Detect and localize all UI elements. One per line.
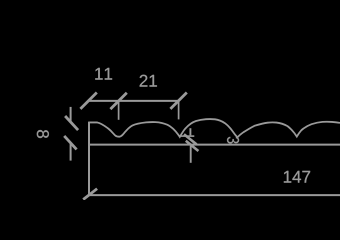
label 147 (284, 171, 310, 183)
dim 3 upper segment (189, 128, 191, 135)
bottom dimension line for 147 (88, 194, 340, 196)
oblique tick between 11 and 21 (110, 93, 126, 109)
extension dropper at first cusp (118, 101, 120, 120)
dim 3 lower oblique tick (186, 141, 199, 151)
scalloped moulding profile top outline (89, 119, 340, 137)
profile left edge / extension line (88, 122, 90, 196)
oblique tick right end of 21 (170, 93, 186, 109)
dim 3 upper oblique tick (184, 134, 197, 144)
top dimension line for 11 and 21 (88, 100, 179, 102)
label 8 rotated (37, 130, 49, 138)
label 3 rotated (227, 137, 239, 144)
label 21 (140, 75, 157, 87)
extension line from cusp for dimension 3 (180, 135, 194, 137)
oblique tick left end of 11 (80, 93, 96, 109)
extension dropper at second cusp (178, 101, 180, 119)
left dim lower oblique tick (64, 136, 76, 150)
left dim upper oblique tick (65, 116, 78, 130)
dim 3 lower segment (190, 146, 192, 163)
board top surface line (89, 144, 340, 146)
bottom dimension oblique tick (83, 189, 97, 200)
label 11 (95, 68, 112, 80)
left vertical dimension 8 upper segment (70, 107, 72, 122)
left vertical dimension 8 lower segment (70, 144, 72, 161)
